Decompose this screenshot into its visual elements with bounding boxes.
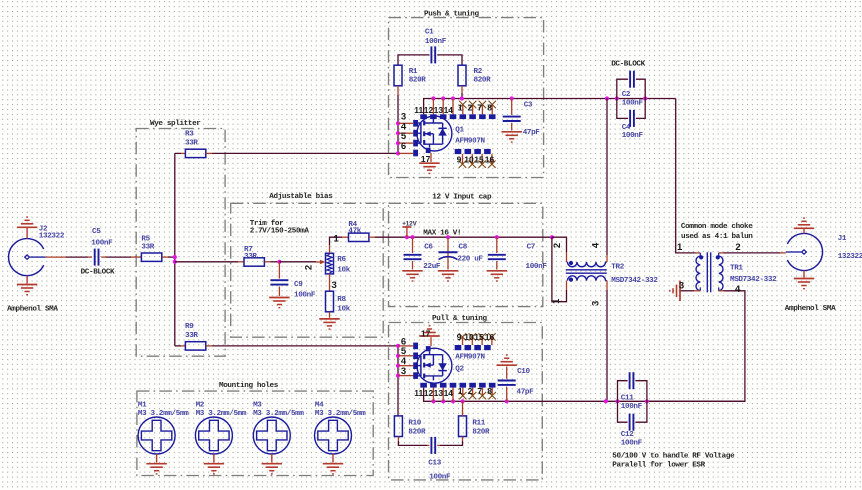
svg-text:9: 9 bbox=[457, 154, 462, 164]
svg-text:M4: M4 bbox=[315, 401, 324, 409]
svg-text:1: 1 bbox=[458, 386, 463, 396]
svg-text:1: 1 bbox=[677, 242, 683, 253]
svg-text:2: 2 bbox=[468, 102, 473, 112]
svg-text:M3 3.2mm/5mm: M3 3.2mm/5mm bbox=[315, 410, 366, 418]
svg-text:2: 2 bbox=[552, 243, 563, 248]
svg-text:TR1: TR1 bbox=[730, 265, 743, 273]
svg-text:Common mode choke: Common mode choke bbox=[681, 223, 753, 231]
svg-text:Paralell for lower ESR: Paralell for lower ESR bbox=[612, 462, 705, 470]
svg-text:14: 14 bbox=[444, 388, 454, 398]
svg-text:C4: C4 bbox=[622, 124, 631, 132]
svg-text:50/100 V to handle RF Voltage: 50/100 V to handle RF Voltage bbox=[612, 453, 735, 461]
svg-text:7: 7 bbox=[477, 102, 482, 112]
svg-text:R6: R6 bbox=[337, 256, 346, 264]
svg-text:15: 15 bbox=[474, 154, 484, 164]
svg-text:M1: M1 bbox=[138, 401, 147, 409]
svg-text:100nF: 100nF bbox=[425, 38, 447, 46]
svg-text:R3: R3 bbox=[185, 131, 194, 139]
svg-text:AFM907N: AFM907N bbox=[455, 137, 485, 145]
svg-text:1: 1 bbox=[551, 298, 562, 304]
svg-text:1: 1 bbox=[334, 233, 340, 244]
svg-text:8: 8 bbox=[487, 102, 492, 112]
svg-text:33R: 33R bbox=[185, 140, 198, 148]
svg-text:10: 10 bbox=[464, 332, 474, 342]
svg-text:12: 12 bbox=[424, 388, 434, 398]
svg-text:12 V Input cap: 12 V Input cap bbox=[432, 194, 492, 202]
svg-text:100nF: 100nF bbox=[622, 100, 644, 108]
svg-text:47pF: 47pF bbox=[523, 129, 541, 137]
svg-text:17: 17 bbox=[421, 154, 431, 164]
svg-text:R5: R5 bbox=[141, 235, 150, 243]
svg-text:13: 13 bbox=[434, 388, 444, 398]
svg-text:MSD7342-332: MSD7342-332 bbox=[611, 277, 658, 285]
svg-text:TR2: TR2 bbox=[611, 263, 624, 271]
svg-text:16: 16 bbox=[485, 332, 495, 342]
svg-text:3: 3 bbox=[401, 366, 406, 377]
svg-text:R9: R9 bbox=[185, 323, 194, 331]
svg-text:DC-BLOCK: DC-BLOCK bbox=[611, 61, 645, 69]
svg-text:Trim for: Trim for bbox=[250, 220, 284, 228]
svg-text:Pull & tuning: Pull & tuning bbox=[432, 315, 487, 323]
svg-text:820R: 820R bbox=[409, 77, 427, 85]
svg-text:100nF: 100nF bbox=[621, 439, 643, 447]
svg-text:C10: C10 bbox=[517, 368, 530, 376]
svg-text:820R: 820R bbox=[408, 429, 426, 437]
svg-text:100nF: 100nF bbox=[621, 403, 643, 411]
svg-text:33R: 33R bbox=[185, 332, 198, 340]
svg-text:2: 2 bbox=[304, 265, 315, 270]
svg-text:100nF: 100nF bbox=[294, 292, 316, 300]
svg-text:M3: M3 bbox=[253, 401, 262, 409]
svg-text:Amphenol SMA: Amphenol SMA bbox=[7, 306, 58, 314]
svg-text:MAX 16 V!: MAX 16 V! bbox=[423, 229, 461, 237]
svg-text:11: 11 bbox=[414, 388, 423, 398]
svg-text:15: 15 bbox=[474, 332, 484, 342]
svg-text:4: 4 bbox=[590, 242, 601, 248]
svg-text:C5: C5 bbox=[92, 228, 101, 236]
svg-text:3: 3 bbox=[590, 301, 601, 306]
svg-text:100nF: 100nF bbox=[622, 132, 644, 140]
svg-text:100nF: 100nF bbox=[91, 240, 113, 248]
svg-text:Q2: Q2 bbox=[455, 366, 464, 374]
svg-text:C9: C9 bbox=[294, 281, 303, 289]
svg-text:Wye splitter: Wye splitter bbox=[150, 120, 201, 128]
svg-text:M2: M2 bbox=[196, 401, 205, 409]
svg-text:R8: R8 bbox=[337, 296, 346, 304]
svg-text:3: 3 bbox=[679, 280, 684, 291]
svg-text:17: 17 bbox=[421, 328, 431, 338]
svg-text:C6: C6 bbox=[424, 243, 433, 251]
svg-text:33R: 33R bbox=[244, 253, 257, 261]
svg-text:Amphenol SMA: Amphenol SMA bbox=[785, 305, 836, 313]
svg-text:100nF: 100nF bbox=[526, 263, 548, 271]
svg-text:Adjustable bias: Adjustable bias bbox=[269, 193, 333, 201]
svg-text:10k: 10k bbox=[337, 266, 350, 274]
svg-text:7: 7 bbox=[477, 386, 482, 396]
svg-text:8: 8 bbox=[487, 386, 492, 396]
svg-text:132322: 132322 bbox=[838, 253, 862, 261]
svg-text:12: 12 bbox=[424, 105, 434, 115]
svg-text:MSD7342-332: MSD7342-332 bbox=[730, 276, 777, 284]
svg-text:R1: R1 bbox=[409, 68, 418, 76]
svg-text:Mounting holes: Mounting holes bbox=[219, 382, 279, 390]
svg-text:820R: 820R bbox=[474, 77, 492, 85]
svg-text:1: 1 bbox=[458, 102, 463, 112]
svg-text:47pF: 47pF bbox=[517, 389, 535, 397]
svg-text:10k: 10k bbox=[337, 305, 350, 313]
svg-text:4: 4 bbox=[735, 284, 741, 295]
svg-text:M3 3.2mm/5mm: M3 3.2mm/5mm bbox=[138, 410, 189, 418]
svg-text:10: 10 bbox=[464, 154, 474, 164]
svg-text:16: 16 bbox=[485, 154, 495, 164]
svg-text:M3 3.2mm/5mm: M3 3.2mm/5mm bbox=[196, 410, 247, 418]
svg-text:C2: C2 bbox=[622, 91, 631, 99]
svg-text:6: 6 bbox=[401, 141, 406, 152]
svg-text:M3 3.2mm/5mm: M3 3.2mm/5mm bbox=[253, 410, 304, 418]
svg-text:C3: C3 bbox=[524, 102, 533, 110]
svg-text:C1: C1 bbox=[425, 29, 434, 37]
svg-text:47k: 47k bbox=[348, 227, 361, 235]
svg-text:R10: R10 bbox=[408, 420, 421, 428]
svg-text:2: 2 bbox=[468, 386, 473, 396]
svg-text:820R: 820R bbox=[472, 429, 490, 437]
svg-text:C7: C7 bbox=[527, 243, 536, 251]
svg-text:220 uF: 220 uF bbox=[457, 256, 483, 264]
svg-text:2.7V/150-250mA: 2.7V/150-250mA bbox=[250, 228, 310, 236]
svg-text:AFM907N: AFM907N bbox=[455, 353, 485, 361]
svg-text:J1: J1 bbox=[838, 235, 847, 243]
svg-text:14: 14 bbox=[444, 105, 454, 115]
svg-text:100nF: 100nF bbox=[429, 473, 451, 481]
svg-text:Q1: Q1 bbox=[455, 127, 464, 135]
svg-text:used as 4:1 balun: used as 4:1 balun bbox=[681, 233, 753, 241]
svg-text:C12: C12 bbox=[621, 431, 634, 439]
svg-text:C13: C13 bbox=[428, 460, 441, 468]
svg-text:C8: C8 bbox=[459, 243, 468, 251]
svg-text:2: 2 bbox=[735, 242, 740, 253]
svg-text:DC-BLOCK: DC-BLOCK bbox=[81, 268, 115, 276]
svg-text:22uF: 22uF bbox=[423, 263, 441, 271]
svg-text:C11: C11 bbox=[621, 394, 634, 402]
svg-text:3: 3 bbox=[332, 280, 337, 291]
svg-text:11: 11 bbox=[414, 105, 423, 115]
svg-text:9: 9 bbox=[457, 332, 462, 342]
svg-text:+12V: +12V bbox=[402, 221, 417, 228]
svg-text:R2: R2 bbox=[474, 68, 483, 76]
svg-text:13: 13 bbox=[434, 105, 444, 115]
svg-text:33R: 33R bbox=[141, 244, 154, 252]
svg-text:R11: R11 bbox=[472, 420, 485, 428]
svg-text:132322: 132322 bbox=[39, 233, 65, 241]
svg-text:Push & tuning: Push & tuning bbox=[424, 11, 479, 19]
